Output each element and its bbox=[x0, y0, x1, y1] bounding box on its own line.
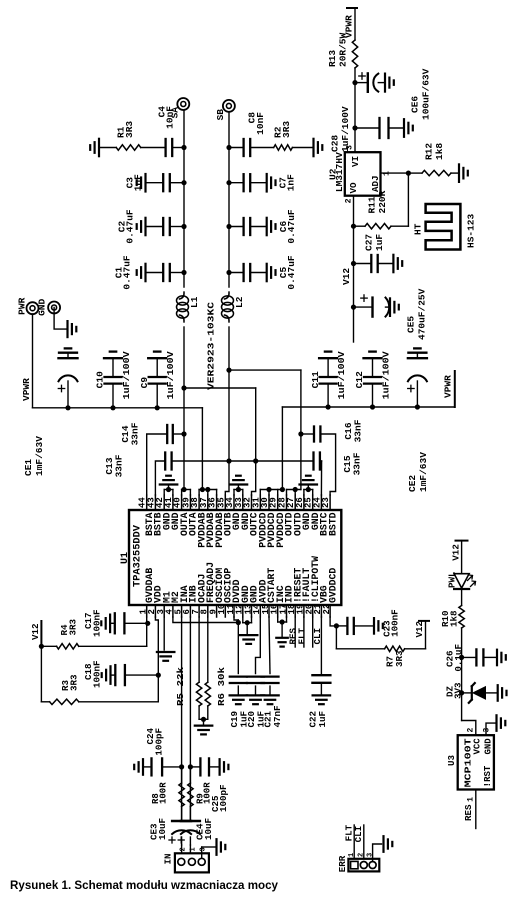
svg-text:CE2: CE2 bbox=[407, 475, 418, 492]
svg-text:10nF: 10nF bbox=[255, 112, 266, 135]
svg-text:0.47uF: 0.47uF bbox=[121, 255, 132, 290]
svg-text:1uF/100V: 1uF/100V bbox=[380, 351, 391, 399]
svg-text:100R: 100R bbox=[159, 782, 169, 804]
svg-text:3R3: 3R3 bbox=[68, 674, 79, 691]
svg-text:1mF/63V: 1mF/63V bbox=[34, 436, 45, 476]
svg-text:U1: U1 bbox=[120, 552, 131, 564]
svg-text:3: 3 bbox=[200, 847, 208, 851]
svg-text:100uF/63V: 100uF/63V bbox=[421, 68, 432, 120]
svg-text:BSTD: BSTD bbox=[327, 512, 338, 536]
svg-text:C11: C11 bbox=[310, 371, 321, 388]
svg-text:R6 30k: R6 30k bbox=[216, 666, 227, 706]
svg-text:33nF: 33nF bbox=[114, 454, 125, 477]
svg-text:23: 23 bbox=[321, 497, 331, 508]
svg-text:V12: V12 bbox=[414, 621, 425, 638]
svg-text:FLT: FLT bbox=[296, 627, 307, 644]
svg-text:20R/5W: 20R/5W bbox=[338, 32, 349, 67]
svg-text:1nF: 1nF bbox=[285, 174, 296, 191]
svg-text:V12: V12 bbox=[341, 268, 352, 285]
svg-text:HT: HT bbox=[413, 223, 424, 235]
svg-text:3: 3 bbox=[483, 728, 492, 733]
svg-text:1: 1 bbox=[467, 797, 476, 802]
svg-text:RES: RES bbox=[463, 804, 474, 821]
svg-text:R13: R13 bbox=[327, 50, 338, 67]
svg-text:0.47uF: 0.47uF bbox=[286, 209, 297, 244]
svg-text:SB: SB bbox=[215, 109, 226, 121]
svg-text:CE6: CE6 bbox=[410, 96, 421, 113]
svg-text:C28: C28 bbox=[330, 135, 341, 152]
svg-text:L1: L1 bbox=[189, 296, 200, 308]
svg-text:10nF: 10nF bbox=[164, 106, 175, 129]
svg-text:0.47uF: 0.47uF bbox=[286, 255, 297, 290]
svg-text:VI: VI bbox=[350, 156, 361, 167]
svg-text:GND: GND bbox=[484, 738, 494, 755]
svg-text:1uF/100V: 1uF/100V bbox=[165, 351, 176, 399]
svg-text:V12: V12 bbox=[30, 623, 41, 640]
svg-text:C9: C9 bbox=[139, 377, 150, 389]
svg-text:R5 22k: R5 22k bbox=[175, 666, 186, 706]
svg-text:47nF: 47nF bbox=[272, 705, 283, 727]
svg-text:R12: R12 bbox=[424, 143, 435, 160]
svg-text:CE5: CE5 bbox=[406, 316, 417, 333]
svg-text:1uF/100V: 1uF/100V bbox=[336, 351, 347, 399]
svg-text:1mF/63V: 1mF/63V bbox=[418, 452, 429, 492]
svg-text:VO: VO bbox=[348, 182, 359, 194]
svg-text:L2: L2 bbox=[234, 296, 245, 308]
svg-text:1: 1 bbox=[190, 847, 198, 851]
svg-text:470uF/25V: 470uF/25V bbox=[417, 288, 428, 340]
svg-text:2: 2 bbox=[180, 847, 188, 851]
svg-text:100nF: 100nF bbox=[92, 660, 103, 688]
svg-text:CE1: CE1 bbox=[23, 459, 34, 476]
svg-text:VER2923-103KC: VER2923-103KC bbox=[206, 302, 217, 390]
svg-text:100nF: 100nF bbox=[92, 609, 103, 637]
svg-text:CLI: CLI bbox=[353, 826, 364, 843]
svg-text:VPWR: VPWR bbox=[443, 375, 454, 398]
svg-text:220R: 220R bbox=[377, 190, 388, 213]
svg-text:22: 22 bbox=[322, 604, 332, 615]
svg-text:!RST: !RST bbox=[483, 765, 493, 787]
svg-text:PWL: PWL bbox=[447, 571, 458, 588]
svg-text:100pF: 100pF bbox=[154, 728, 165, 756]
svg-text:VPWR: VPWR bbox=[21, 378, 32, 401]
svg-text:LM317HV: LM317HV bbox=[334, 152, 345, 192]
svg-text:1uF: 1uF bbox=[374, 234, 385, 251]
svg-text:0.47uF: 0.47uF bbox=[124, 209, 135, 244]
svg-text:33nF: 33nF bbox=[130, 422, 141, 445]
svg-text:2: 2 bbox=[345, 198, 354, 203]
svg-text:IN: IN bbox=[163, 853, 174, 864]
svg-text:2: 2 bbox=[467, 728, 476, 733]
svg-text:10uF: 10uF bbox=[157, 818, 168, 840]
svg-text:GND: GND bbox=[37, 299, 48, 316]
svg-text:33nF: 33nF bbox=[352, 452, 363, 475]
svg-text:1nF: 1nF bbox=[132, 174, 143, 191]
svg-text:3R3: 3R3 bbox=[394, 650, 405, 667]
svg-text:R11: R11 bbox=[367, 196, 378, 213]
svg-text:GVDDCD: GVDDCD bbox=[327, 568, 338, 603]
svg-text:3R3: 3R3 bbox=[124, 121, 135, 138]
svg-text:C10: C10 bbox=[95, 371, 106, 388]
svg-text:V12: V12 bbox=[451, 544, 462, 561]
svg-text:C27: C27 bbox=[364, 234, 375, 251]
svg-text:100R: 100R bbox=[203, 782, 213, 804]
svg-text:ERR: ERR bbox=[337, 855, 348, 872]
svg-text:ADJ: ADJ bbox=[370, 175, 381, 192]
svg-text:1uF/100V: 1uF/100V bbox=[121, 351, 132, 399]
svg-text:HS-123: HS-123 bbox=[466, 213, 477, 248]
svg-text:3R3: 3R3 bbox=[281, 121, 292, 138]
svg-text:PWR: PWR bbox=[17, 297, 28, 314]
svg-text:U3: U3 bbox=[446, 754, 457, 766]
svg-text:Rysunek 1. Schemat modułu wzma: Rysunek 1. Schemat modułu wzmacniacza mo… bbox=[10, 878, 278, 892]
svg-text:C12: C12 bbox=[354, 371, 365, 388]
svg-text:100nF: 100nF bbox=[389, 609, 400, 637]
svg-text:1k8: 1k8 bbox=[449, 610, 460, 627]
svg-text:TPA3255DDV: TPA3255DDV bbox=[133, 525, 144, 587]
svg-text:3R3: 3R3 bbox=[67, 618, 78, 635]
svg-text:33nF: 33nF bbox=[353, 419, 364, 442]
svg-text:3: 3 bbox=[346, 145, 355, 150]
svg-text:100pF: 100pF bbox=[218, 784, 229, 812]
svg-text:1uF: 1uF bbox=[317, 711, 328, 728]
svg-text:VCC: VCC bbox=[473, 738, 483, 755]
svg-text:10uF: 10uF bbox=[203, 818, 214, 840]
svg-text:1k8: 1k8 bbox=[434, 143, 445, 160]
